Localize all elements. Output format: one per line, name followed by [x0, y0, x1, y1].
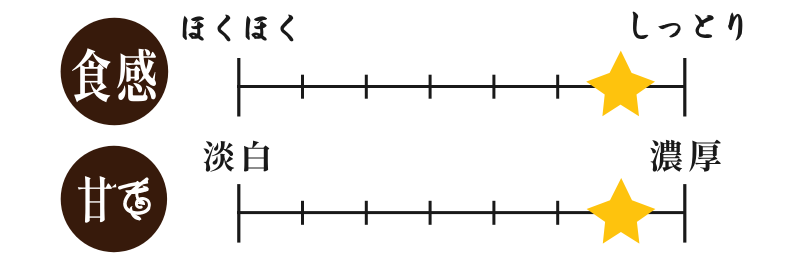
row 1 category circle (brown) [61, 18, 169, 126]
scale 2 tick 4 [492, 201, 495, 225]
scale 1 tick 4 [492, 75, 495, 99]
row 2 rating star [587, 178, 656, 244]
row 1 left label ほくほく [183, 15, 293, 41]
scale 2 axis line [237, 211, 686, 214]
row 1 rating star [586, 51, 655, 117]
scale 2 tick 5 [556, 201, 559, 225]
scale 1 right end bar [683, 58, 686, 117]
scale 1 left end bar [237, 58, 240, 117]
row 1 circle text 食感 (white) [72, 48, 156, 102]
row 2 category circle (brown) [61, 146, 167, 252]
scale 2 tick 1 [301, 201, 304, 225]
scale 1 tick 1 [301, 75, 304, 99]
scale 1 tick 2 [365, 75, 368, 99]
row 2 left label 淡白 [204, 141, 270, 172]
scale 1 axis line [237, 85, 686, 88]
scale 2 tick 3 [429, 201, 432, 225]
scale 1 tick 5 [556, 75, 559, 99]
row 2 circle text さ cursive (white) [111, 177, 149, 213]
row 2 circle text 甘 (white) [78, 176, 149, 223]
scale 2 tick 2 [365, 201, 368, 225]
scale 2 left end bar [237, 184, 240, 243]
row 2 right label 濃厚 [650, 140, 721, 172]
scale 1 tick 3 [429, 75, 432, 99]
row 1 right label しっとり [633, 12, 742, 40]
scale 2 right end bar [683, 184, 686, 243]
